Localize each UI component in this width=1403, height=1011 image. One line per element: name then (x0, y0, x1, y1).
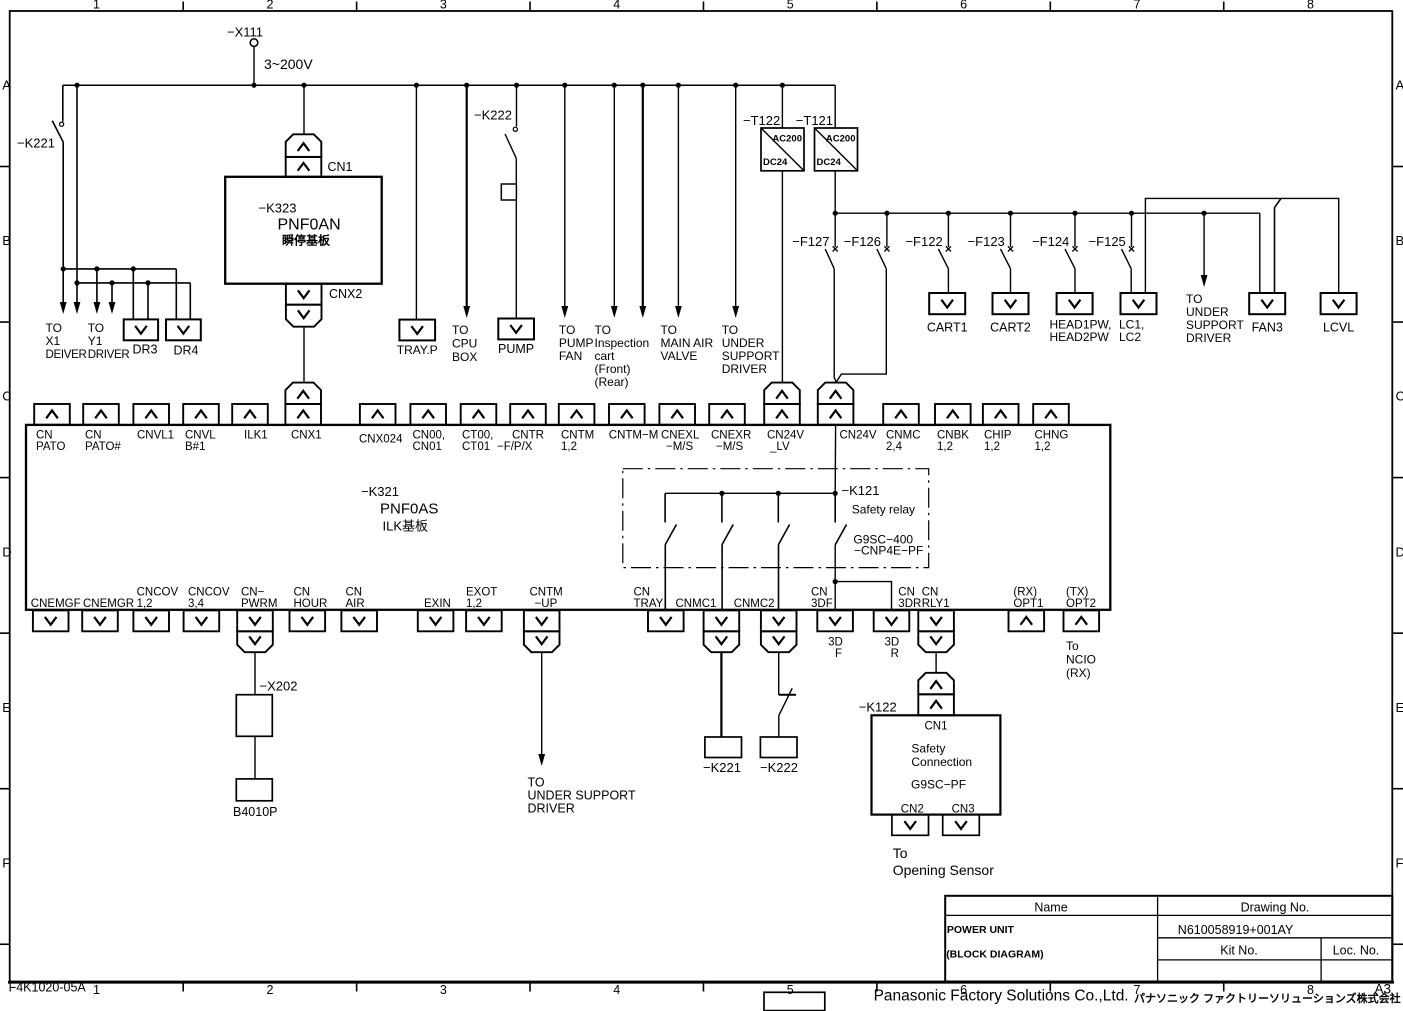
svg-text:POWER UNIT: POWER UNIT (947, 924, 1015, 936)
junction DC24 bus (833, 211, 1207, 216)
svg-text:FAN3: FAN3 (1252, 321, 1283, 335)
relay coil K221 (703, 737, 741, 775)
svg-text:CT01: CT01 (462, 441, 490, 453)
svg-text:CNTR: CNTR (512, 430, 544, 442)
wire K222 to overload (515, 158, 517, 184)
company name (874, 988, 1401, 1006)
connector K122 CN1 plug (918, 673, 954, 716)
wire CNX2 to CNX1 (303, 327, 305, 384)
bottom ruler column numbers (93, 982, 1314, 998)
wire to K222 coil (778, 716, 780, 737)
svg-text:CHNG: CHNG (1035, 430, 1069, 442)
wire CN-PWRM to X202 (254, 652, 256, 695)
svg-text:PNF0AN: PNF0AN (278, 217, 341, 234)
svg-text:ILK基板: ILK基板 (383, 519, 429, 534)
arrow CNTM-UP to under support driver (538, 652, 545, 766)
wire T122 to CN24V_LV (781, 171, 783, 383)
svg-text:CNBK: CNBK (937, 430, 969, 442)
wire X202 to B4010P (254, 736, 256, 779)
label TO PUMP FAN (559, 323, 594, 363)
svg-text:−M/S: −M/S (716, 441, 743, 453)
svg-text:(Rear): (Rear) (595, 375, 629, 389)
svg-text:CT00,: CT00, (462, 430, 493, 442)
wire to DR4 (176, 269, 190, 320)
svg-text:B: B (1396, 233, 1403, 248)
svg-text:PWRM: PWRM (241, 598, 277, 610)
connector TRAY.P (397, 320, 438, 357)
arrow to CPU box (463, 85, 470, 318)
svg-text:CNVL: CNVL (185, 430, 216, 442)
svg-text:C: C (2, 389, 11, 404)
svg-text:−X202: −X202 (260, 679, 298, 694)
connector CNTR −F/P/X (497, 404, 546, 453)
connector CART2 (990, 293, 1031, 335)
svg-text:−K221: −K221 (17, 136, 55, 151)
svg-text:7: 7 (1134, 0, 1141, 12)
svg-text:パナソニック ファクトリーソリューションズ株式会社: パナソニック ファクトリーソリューションズ株式会社 (1134, 991, 1401, 1005)
connector CN 3DF (811, 587, 853, 632)
svg-text:CNEMGR: CNEMGR (83, 598, 134, 610)
svg-text:瞬停基板: 瞬停基板 (282, 233, 331, 248)
connector CN RLY1 (918, 587, 954, 653)
svg-text:BOX: BOX (452, 350, 477, 364)
wire F124 to HEAD1PW (1074, 269, 1076, 293)
svg-text:CNX2: CNX2 (329, 287, 362, 301)
connector CNVL1 (133, 404, 174, 442)
svg-text:Y1: Y1 (88, 334, 103, 348)
connector CNTM 1,2 (559, 404, 595, 453)
svg-text:F: F (835, 648, 842, 660)
svg-text:CN01: CN01 (413, 441, 442, 453)
wire X111 to bus (253, 46, 255, 85)
svg-text:D: D (1396, 544, 1403, 559)
svg-text:CN: CN (634, 587, 651, 599)
svg-text:CN1: CN1 (924, 721, 947, 733)
connector CN AIR (341, 587, 377, 632)
relay contact K121-1 (665, 493, 676, 544)
svg-text:1,2: 1,2 (1035, 441, 1051, 453)
connector CN1 (286, 134, 353, 176)
sheet size A3 (1375, 982, 1392, 997)
svg-text:TO: TO (88, 321, 104, 335)
wire distribution line 1 (62, 268, 177, 270)
svg-text:TRAY: TRAY (634, 598, 664, 610)
svg-text:Name: Name (1034, 901, 1067, 915)
svg-text:Connection: Connection (911, 755, 972, 769)
arrow to inspection cart rear (639, 85, 646, 318)
svg-text:CNEXR: CNEXR (711, 430, 751, 442)
svg-text:SUPPORT: SUPPORT (722, 349, 780, 363)
fuse F127 (792, 234, 838, 269)
svg-text:LCVL: LCVL (1323, 321, 1354, 335)
board K323 PNF0AN (225, 177, 382, 284)
connector CHIP 1,2 (983, 404, 1019, 453)
fuse F126 (844, 213, 890, 269)
wire bus to CN1 (303, 85, 305, 134)
svg-text:Kit No.: Kit No. (1220, 944, 1258, 958)
svg-text:AIR: AIR (346, 598, 365, 610)
svg-text:3: 3 (440, 0, 447, 12)
wire F122 to CART1 (947, 269, 949, 293)
fuse F124 (1032, 213, 1078, 269)
svg-text:C: C (1396, 389, 1403, 404)
svg-text:cart: cart (595, 349, 616, 363)
svg-text:CN2: CN2 (901, 804, 924, 816)
svg-text:VALVE: VALVE (661, 349, 698, 363)
connector CNVL B#1 (183, 404, 219, 453)
svg-text:F4K1020-05A: F4K1020-05A (9, 981, 87, 995)
svg-text:4: 4 (613, 983, 620, 997)
connector EXOT 1,2 (466, 587, 502, 632)
svg-text:DRIVER: DRIVER (88, 349, 130, 361)
svg-text:4: 4 (613, 0, 620, 12)
title block (945, 896, 1392, 982)
svg-text:3D: 3D (884, 637, 899, 649)
svg-text:A: A (1396, 78, 1403, 93)
svg-text:CNTM: CNTM (530, 587, 563, 599)
svg-text:_LV: _LV (769, 441, 790, 453)
label TO UNDER SUPPORT DRIVER right (1186, 292, 1244, 345)
svg-text:CNVL1: CNVL1 (137, 430, 174, 442)
wire CN24V into board (834, 425, 836, 493)
svg-text:DRIVER: DRIVER (1186, 331, 1232, 345)
label TO Y1 DRIVER (88, 321, 130, 361)
connector CART1 (927, 293, 968, 335)
svg-text:1,2: 1,2 (466, 598, 482, 610)
connector CNMC1 (676, 598, 740, 652)
svg-text:2: 2 (266, 0, 273, 12)
terminal X111 (227, 25, 263, 47)
svg-text:5: 5 (787, 0, 794, 12)
connector (TX) OPT2 (1064, 587, 1100, 632)
connector CNEMGF (31, 598, 81, 631)
top ruler column numbers (93, 0, 1314, 12)
label TO CPU BOX (452, 323, 477, 364)
connector CNX2 (286, 284, 362, 327)
svg-text:CNMC1: CNMC1 (676, 598, 717, 610)
svg-text:−T122: −T122 (743, 113, 780, 128)
connector DR3 (124, 319, 158, 356)
connector CN PATO (34, 404, 70, 453)
revision box (764, 992, 825, 1010)
svg-text:DRIVER: DRIVER (722, 362, 768, 376)
transformer T121 (796, 113, 858, 171)
label TO X1 DEIVER (46, 321, 87, 361)
wire contact4 to CN 3DF (834, 545, 836, 611)
wire T121 to DC bus (834, 171, 836, 247)
connector HEAD1PW HEAD2PW (1050, 293, 1112, 344)
svg-text:(Front): (Front) (595, 362, 631, 376)
svg-text:Safety: Safety (911, 742, 945, 756)
label 3D R (884, 637, 899, 661)
svg-text:CN00,: CN00, (413, 430, 446, 442)
svg-text:PUMP: PUMP (559, 336, 594, 350)
svg-text:CHIP: CHIP (984, 430, 1012, 442)
svg-text:CN1: CN1 (328, 160, 353, 174)
svg-text:MAIN AIR: MAIN AIR (661, 336, 714, 350)
svg-text:PATO: PATO (36, 441, 65, 453)
svg-text:2: 2 (266, 983, 273, 997)
svg-text:E: E (1396, 700, 1403, 715)
label To Opening Sensor (893, 845, 995, 878)
svg-text:−K222: −K222 (760, 760, 798, 775)
svg-text:3DR: 3DR (898, 598, 921, 610)
connector CNEXR −M/S (709, 404, 751, 453)
svg-text:(RX): (RX) (1013, 587, 1037, 599)
wire CNMC1 to K221 coil (720, 652, 722, 737)
svg-text:CNX1: CNX1 (291, 430, 322, 442)
svg-text:R: R (891, 648, 899, 660)
connector CN TRAY (634, 587, 684, 632)
svg-text:TO: TO (452, 323, 468, 337)
wire K221 down (62, 143, 64, 269)
svg-text:3DF: 3DF (811, 598, 833, 610)
connector CN24V _LV (764, 383, 804, 453)
svg-text:HEAD2PW: HEAD2PW (1050, 330, 1110, 344)
svg-text:PATO#: PATO# (85, 441, 121, 453)
wire bus to T121 (834, 85, 836, 128)
svg-text:CNCOV: CNCOV (188, 587, 230, 599)
arrow to Y1 driver a (94, 269, 101, 314)
svg-text:−F124: −F124 (1032, 234, 1069, 249)
label TO Inspection cart (595, 323, 650, 389)
svg-text:To: To (1066, 639, 1079, 653)
connector K122 CN2 (892, 815, 929, 836)
svg-text:Drawing No.: Drawing No. (1241, 901, 1310, 915)
svg-text:B4010P: B4010P (233, 805, 277, 819)
arrow to under support driver right (1201, 213, 1208, 287)
board K122 safety connection (859, 700, 1001, 816)
svg-text:EXOT: EXOT (466, 587, 497, 599)
svg-text:CNEMGF: CNEMGF (31, 598, 81, 610)
svg-text:UNDER: UNDER (722, 336, 765, 350)
svg-text:Safety relay: Safety relay (852, 503, 915, 517)
overload element pump (501, 184, 516, 200)
arrow to under support driver (732, 85, 739, 318)
wire bus to T122 (781, 85, 783, 128)
svg-text:Inspection: Inspection (595, 336, 650, 350)
svg-text:6: 6 (960, 0, 967, 12)
svg-text:D: D (2, 544, 11, 559)
junction 3D branch (833, 579, 838, 584)
connector FAN3 (1249, 293, 1285, 335)
connector CN 3DR (874, 587, 922, 632)
arrow to X1 driver b (74, 283, 81, 314)
svg-text:SUPPORT: SUPPORT (1186, 318, 1244, 332)
svg-text:−F123: −F123 (968, 234, 1005, 249)
wire to TRAY.P (415, 85, 417, 319)
svg-text:RLY1: RLY1 (922, 598, 950, 610)
svg-text:CNEXL: CNEXL (661, 430, 700, 442)
svg-text:AC200: AC200 (826, 134, 856, 145)
label 3~200V (264, 56, 313, 72)
svg-text:E: E (2, 700, 11, 715)
svg-text:CN: CN (85, 430, 102, 442)
label TO MAIN AIR VALVE (661, 323, 714, 363)
svg-text:B#1: B#1 (185, 441, 205, 453)
svg-text:CNCOV: CNCOV (137, 587, 179, 599)
svg-text:TO: TO (661, 323, 677, 337)
connector CNCOV 1,2 (133, 587, 178, 632)
svg-text:OPT1: OPT1 (1013, 598, 1043, 610)
svg-text:ILK1: ILK1 (244, 430, 268, 442)
svg-text:CN24V: CN24V (840, 430, 877, 442)
svg-text:−K121: −K121 (842, 483, 880, 498)
svg-text:−F122: −F122 (905, 234, 942, 249)
connector CN00, CN01 (410, 404, 446, 453)
relay coil K222 (760, 737, 798, 775)
svg-text:Opening Sensor: Opening Sensor (893, 862, 995, 878)
wire to DR3 (133, 269, 148, 320)
connector CN PATO# (83, 404, 121, 453)
relay contact K121-3 (778, 493, 789, 544)
connector CNMC2 (734, 598, 797, 652)
svg-text:3D: 3D (828, 637, 843, 649)
label To NCIO RX (1066, 639, 1096, 680)
drawing code F4K1020-05A (9, 981, 87, 995)
wire branch to FAN3 diagonal (1275, 198, 1282, 293)
connector CNMC 2,4 (883, 404, 920, 453)
svg-text:CART1: CART1 (927, 321, 968, 335)
svg-text:CN: CN (346, 587, 363, 599)
svg-text:−K221: −K221 (703, 760, 741, 775)
wire distribution line 2 (77, 282, 190, 284)
svg-text:−F127: −F127 (792, 234, 829, 249)
connector CNTM −UP (524, 587, 563, 653)
switch K222 pump (474, 85, 517, 158)
svg-text:DC24: DC24 (763, 157, 788, 168)
connector (RX) OPT1 (1009, 587, 1045, 632)
junction bus (74, 83, 785, 88)
contact K222 normally closed (779, 688, 796, 715)
svg-text:DC24: DC24 (817, 157, 842, 168)
svg-text:OPT2: OPT2 (1066, 598, 1096, 610)
svg-text:−K222: −K222 (474, 108, 512, 123)
wire CNMC2 stub (778, 652, 780, 695)
svg-text:2,4: 2,4 (886, 441, 903, 453)
label K121 safety relay (842, 483, 924, 558)
svg-text:HOUR: HOUR (294, 598, 328, 610)
svg-text:TO: TO (1186, 292, 1202, 306)
connector CNTM−M (609, 404, 659, 442)
svg-text:LC2: LC2 (1119, 330, 1141, 344)
wire K121 coil bus (665, 492, 835, 494)
junction distribution (61, 266, 151, 285)
svg-text:CNTM−M: CNTM−M (609, 430, 659, 442)
connector CN− PWRM (237, 587, 277, 653)
wire AC bus (63, 84, 835, 86)
connector CNCOV 3,4 (184, 587, 230, 632)
svg-text:5: 5 (787, 983, 794, 997)
svg-text:CN3: CN3 (952, 804, 975, 816)
relay K121 dashed outline (623, 469, 929, 568)
arrow to Y1 driver b (109, 283, 116, 314)
svg-text:To: To (893, 845, 908, 861)
relay contact K121-2 (722, 493, 733, 544)
connector X202 (236, 679, 297, 737)
svg-text:F: F (1396, 856, 1403, 871)
fuse F123 (968, 213, 1014, 269)
wire DC24 bus (835, 212, 1260, 214)
svg-text:−F/P/X: −F/P/X (497, 441, 533, 453)
connector CN24V (818, 383, 877, 442)
svg-text:(RX): (RX) (1066, 666, 1091, 680)
connector ILK1 (232, 404, 268, 442)
transformer T122 (743, 113, 804, 171)
wire contact3 to CNMC2 (778, 545, 780, 611)
svg-text:1: 1 (93, 0, 100, 12)
wire DC bus end to FAN3 (1259, 213, 1261, 293)
connector CNEXL −M/S (659, 404, 700, 453)
svg-text:CNMC: CNMC (886, 430, 921, 442)
wire F126 to CN24V (836, 269, 886, 382)
svg-text:TO: TO (46, 321, 62, 335)
svg-text:CN: CN (922, 587, 939, 599)
svg-text:−K323: −K323 (259, 201, 297, 216)
svg-text:G9SC−PF: G9SC−PF (911, 778, 966, 792)
svg-text:TO: TO (722, 323, 738, 337)
svg-text:B: B (2, 233, 11, 248)
svg-text:UNDER: UNDER (1186, 305, 1229, 319)
svg-text:Loc. No.: Loc. No. (1333, 944, 1380, 958)
wire overload to PUMP (515, 200, 517, 319)
wire CN RLY1 to K122 (935, 652, 937, 673)
left ruler row letters (0, 78, 12, 945)
wire contact1 to CN TRAY (664, 545, 666, 611)
connector DR4 (166, 319, 201, 357)
relay contact K121-4 (835, 493, 846, 544)
connector CNX024 (359, 404, 403, 446)
svg-text:−X111: −X111 (227, 25, 263, 40)
svg-text:CN24V: CN24V (767, 430, 804, 442)
connector LCVL (1321, 293, 1357, 335)
svg-text:TO: TO (595, 323, 611, 337)
svg-text:8: 8 (1307, 0, 1314, 12)
svg-text:1: 1 (93, 983, 100, 997)
svg-text:3~200V: 3~200V (264, 56, 313, 72)
svg-text:CPU: CPU (452, 337, 477, 351)
arrow to pump fan (561, 85, 568, 318)
svg-text:1,2: 1,2 (137, 598, 153, 610)
svg-text:−F126: −F126 (844, 234, 881, 249)
svg-text:CN−: CN− (241, 587, 265, 599)
connector B4010P (233, 779, 277, 819)
arrow to inspection cart front (611, 85, 618, 318)
svg-text:FAN: FAN (559, 349, 582, 363)
svg-text:PNF0AS: PNF0AS (380, 501, 438, 518)
label 3D F (828, 637, 843, 661)
svg-text:X1: X1 (46, 334, 61, 348)
svg-text:N610058919+001AY: N610058919+001AY (1178, 923, 1294, 937)
connector K122 CN3 (943, 815, 980, 836)
wire branch to CN 3DR (835, 582, 891, 611)
svg-text:F: F (2, 856, 10, 871)
svg-text:DEIVER: DEIVER (46, 349, 87, 361)
svg-text:CN: CN (811, 587, 828, 599)
connector CHNG 1,2 (1033, 404, 1069, 453)
svg-text:NCIO: NCIO (1066, 653, 1096, 667)
svg-text:UNDER SUPPORT: UNDER SUPPORT (528, 789, 636, 803)
svg-text:CNMC2: CNMC2 (734, 598, 775, 610)
label TO UNDER SUPPORT DRIVER left (722, 323, 780, 376)
svg-text:3,4: 3,4 (188, 598, 205, 610)
fuse F122 (905, 213, 951, 269)
svg-text:1,2: 1,2 (937, 441, 953, 453)
wire DC24 upper branch (1145, 198, 1338, 293)
svg-text:AC200: AC200 (772, 134, 802, 145)
wire F123 to CART2 (1010, 269, 1012, 293)
connector CT00, CT01 (461, 404, 497, 453)
